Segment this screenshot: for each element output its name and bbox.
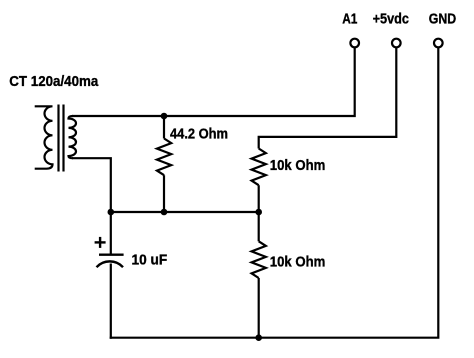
wire upper 10k resistor bottom lead xyxy=(258,185,260,212)
capacitor 10 uF top plate xyxy=(99,253,124,255)
transformer T1 core xyxy=(59,105,64,172)
wire 44.2 resistor bottom lead xyxy=(163,175,165,212)
junction node bottom bus xyxy=(255,334,262,341)
terminal +5vdc xyxy=(392,39,401,48)
svg-text:10k Ohm: 10k Ohm xyxy=(270,255,326,271)
svg-text:10 uF: 10 uF xyxy=(132,253,168,269)
wire 44.2 resistor top lead xyxy=(163,116,165,139)
wire bottom bus xyxy=(110,337,259,339)
svg-text:A1: A1 xyxy=(342,12,357,28)
junction node mid bus right xyxy=(255,209,262,216)
svg-text:44.2 Ohm: 44.2 Ohm xyxy=(170,126,228,142)
junction node mid bus left xyxy=(108,209,115,216)
resistor lower 10k Ohm xyxy=(252,241,266,278)
wire capacitor bottom lead xyxy=(110,264,112,339)
wire lower 10k resistor bottom lead xyxy=(258,278,260,338)
svg-text:10k Ohm: 10k Ohm xyxy=(270,158,326,174)
svg-text:+5vdc: +5vdc xyxy=(373,12,409,28)
wire mid bus xyxy=(111,211,259,213)
terminal A1 xyxy=(350,39,359,48)
wire GND terminal to bottom bus xyxy=(259,48,439,338)
svg-text:GND: GND xyxy=(429,12,456,28)
terminal GND xyxy=(434,39,443,48)
wire mid bus to capacitor xyxy=(110,212,112,255)
wire secondary top to A1 node xyxy=(72,48,355,117)
transformer T1 secondary winding xyxy=(69,116,77,158)
svg-text:CT 120a/40ma: CT 120a/40ma xyxy=(9,74,99,90)
wire +5vdc to upper 10k resistor xyxy=(259,48,397,149)
wire mid bus to lower 10k resistor xyxy=(258,212,260,241)
junction node at 44.2 resistor top xyxy=(161,113,168,120)
junction node mid bus center xyxy=(161,209,168,216)
resistor 44.2 Ohm xyxy=(157,139,171,176)
capacitor 10 uF plus sign xyxy=(95,237,106,248)
resistor upper 10k Ohm xyxy=(252,149,266,186)
transformer T1 primary winding xyxy=(35,106,53,168)
wire secondary bottom to mid bus xyxy=(72,158,111,212)
capacitor 10 uF bottom plate (curved) xyxy=(97,261,124,267)
